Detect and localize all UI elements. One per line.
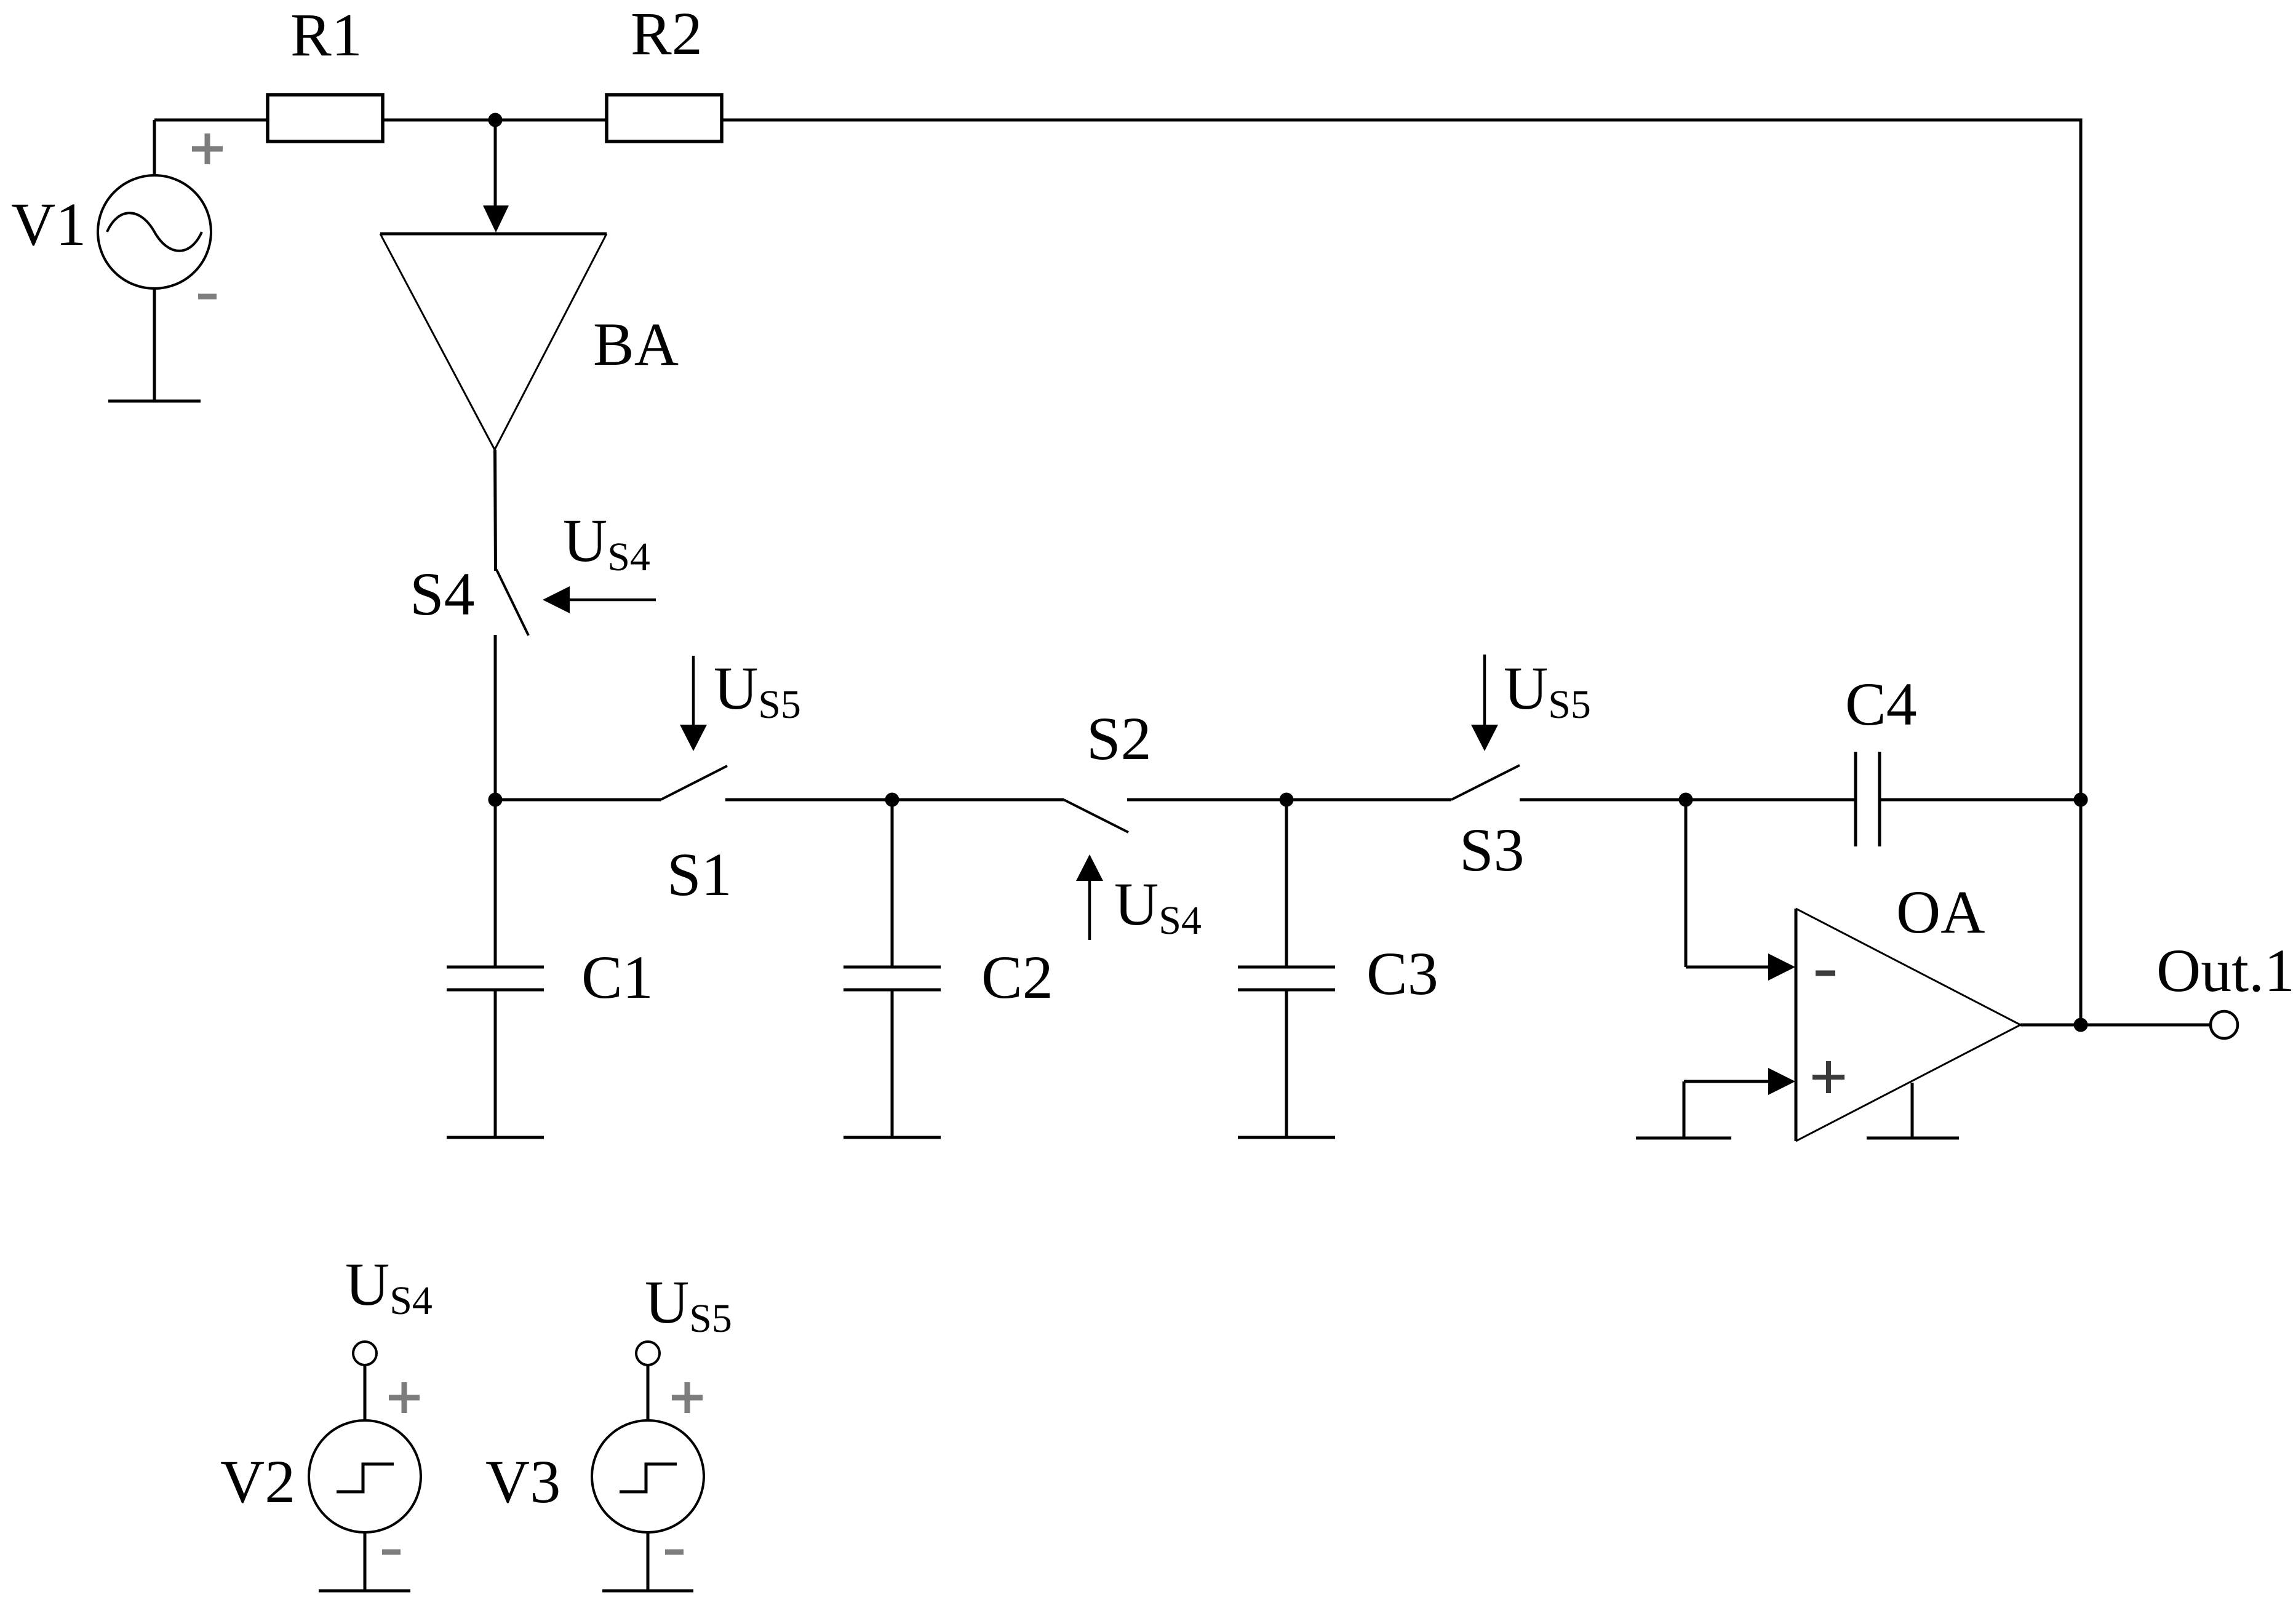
svg-text:C1: C1 <box>581 943 653 1011</box>
svg-text:C2: C2 <box>981 943 1053 1011</box>
svg-text:R2: R2 <box>631 0 703 68</box>
svg-text:C3: C3 <box>1366 939 1438 1008</box>
svg-text:V1: V1 <box>11 190 86 258</box>
svg-text:OA: OA <box>1896 878 1985 946</box>
svg-text:C4: C4 <box>1845 670 1917 738</box>
svg-text:V2: V2 <box>220 1447 295 1516</box>
svg-text:Out.1: Out.1 <box>2156 936 2293 1005</box>
svg-text:R1: R1 <box>290 1 362 69</box>
svg-text:BA: BA <box>593 310 679 378</box>
svg-text:S4: S4 <box>410 560 475 628</box>
svg-text:V3: V3 <box>485 1447 560 1516</box>
svg-text:S3: S3 <box>1459 816 1525 884</box>
svg-text:S1: S1 <box>667 840 732 909</box>
svg-text:S2: S2 <box>1087 704 1152 773</box>
